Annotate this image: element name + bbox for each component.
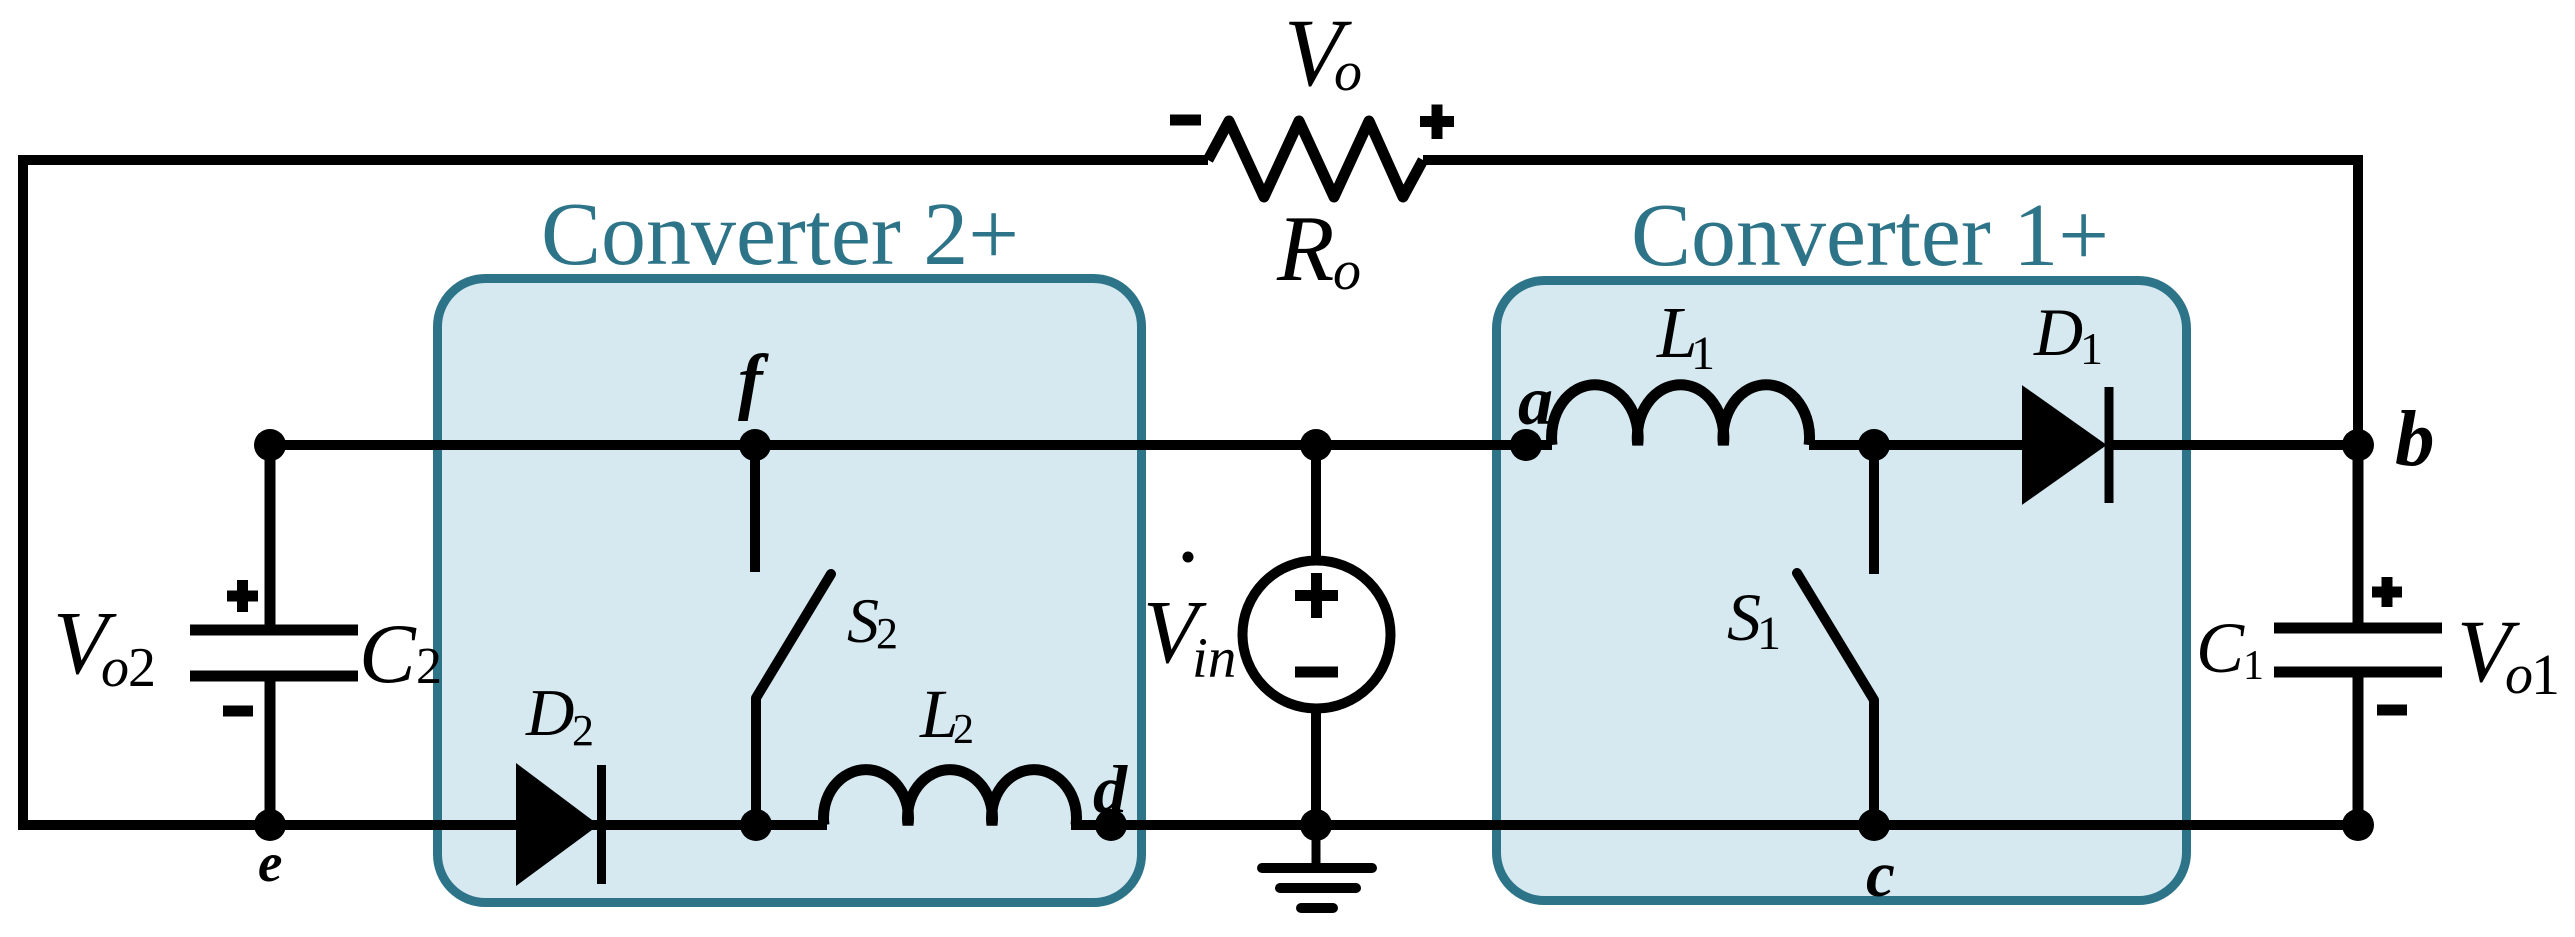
wire bottom left xyxy=(18,820,827,830)
diode D2 cathode bar xyxy=(597,765,606,884)
svg-text:C: C xyxy=(2196,608,2245,688)
node Vin top xyxy=(1300,429,1332,461)
inductor L2 xyxy=(824,770,1077,825)
node bottom right xyxy=(2342,809,2374,841)
node Vin bottom xyxy=(1300,809,1332,841)
svg-text:2: 2 xyxy=(128,637,156,699)
svg-text:Converter 2+: Converter 2+ xyxy=(541,185,1019,284)
switch S2 lower stub xyxy=(751,698,761,825)
svg-text:o: o xyxy=(2505,644,2533,706)
node L1 D1 junction xyxy=(1858,429,1890,461)
ground bar 1 xyxy=(1262,863,1372,873)
svg-text:c: c xyxy=(1866,839,1895,911)
switch S1 stub xyxy=(1869,445,1879,574)
wire Vin top stub xyxy=(1311,445,1321,557)
svg-text:2: 2 xyxy=(416,638,442,695)
wire L1 to D1 xyxy=(1809,440,2023,450)
converter 1 box xyxy=(1497,281,2187,901)
voltage source Vin circle xyxy=(1243,561,1391,709)
svg-text:1: 1 xyxy=(2531,642,2560,707)
node S2 bottom xyxy=(740,809,772,841)
ground bar 2 xyxy=(1280,883,1356,893)
wire C2 bottom xyxy=(265,676,276,825)
svg-text:o: o xyxy=(101,637,129,699)
svg-text:D: D xyxy=(525,676,574,750)
resistor Ro xyxy=(1208,121,1423,197)
wire ground stub xyxy=(1312,825,1321,868)
capacitor C2 top plate xyxy=(190,625,358,636)
svg-text:1: 1 xyxy=(1691,327,1715,380)
svg-text:1: 1 xyxy=(2243,643,2264,689)
node f xyxy=(739,429,771,461)
svg-text:1: 1 xyxy=(1757,607,1781,660)
minus sign inside Vin xyxy=(1295,667,1338,678)
wire top left xyxy=(23,155,1208,165)
switch S1 lower stub xyxy=(1869,700,1879,825)
wire right vertical xyxy=(2353,155,2363,445)
node d xyxy=(1095,809,1127,841)
node c xyxy=(1858,809,1890,841)
svg-text:C: C xyxy=(359,607,417,701)
capacitor C1 bottom plate xyxy=(2274,667,2442,678)
capacitor C1 top plate xyxy=(2274,623,2442,634)
svg-text:2: 2 xyxy=(953,707,974,753)
svg-text:S: S xyxy=(1727,579,1761,655)
node C2 top xyxy=(254,429,286,461)
svg-text:o: o xyxy=(1333,240,1361,302)
capacitor C2 bottom plate xyxy=(190,671,358,682)
wire C1 bottom xyxy=(2353,672,2364,825)
node e xyxy=(254,809,286,841)
svg-text:D: D xyxy=(2033,294,2083,370)
wire bottom right xyxy=(1071,820,2358,830)
diode D1 triangle xyxy=(2023,387,2105,503)
node b xyxy=(2342,429,2374,461)
plus sign C2 xyxy=(227,580,258,612)
svg-text:o: o xyxy=(1334,41,1362,103)
switch S1 xyxy=(1797,573,1874,700)
plus sign C1 xyxy=(2372,577,2402,607)
converter 2 box xyxy=(438,279,1142,903)
plus sign inside Vin xyxy=(1295,573,1338,618)
switch S2 xyxy=(756,574,831,698)
svg-text:2: 2 xyxy=(876,609,898,658)
diode D1 cathode bar xyxy=(2105,387,2114,503)
inductor L1 xyxy=(1552,385,1810,445)
svg-text:a: a xyxy=(1518,363,1553,440)
svg-text:b: b xyxy=(2395,396,2435,483)
svg-text:R: R xyxy=(1276,197,1334,301)
minus sign C1 xyxy=(2377,705,2407,716)
svg-text:e: e xyxy=(258,832,282,893)
minus sign left of resistor xyxy=(1170,115,1201,126)
svg-text:1: 1 xyxy=(2080,323,2103,374)
svg-text:S: S xyxy=(847,585,879,656)
svg-text:Converter 1+: Converter 1+ xyxy=(1631,186,2109,285)
wire C1 top xyxy=(2353,445,2364,628)
stray dot above Vin xyxy=(1183,552,1194,563)
wire D1 to b xyxy=(2113,440,2358,450)
wire Vin bottom stub xyxy=(1311,709,1321,825)
node a xyxy=(1510,429,1542,461)
svg-text:d: d xyxy=(1093,751,1128,827)
plus sign right of resistor xyxy=(1420,105,1454,140)
node f wire stub xyxy=(750,445,760,572)
ground bar 3 xyxy=(1301,903,1333,913)
svg-text:in: in xyxy=(1192,627,1236,690)
wire C2 top xyxy=(265,445,276,630)
wire middle xyxy=(270,440,1552,450)
wire top right xyxy=(1423,155,2358,165)
svg-text:2: 2 xyxy=(572,706,594,755)
minus sign C2 xyxy=(223,706,253,717)
wire left vertical xyxy=(18,155,28,830)
diode D2 triangle xyxy=(517,765,597,884)
